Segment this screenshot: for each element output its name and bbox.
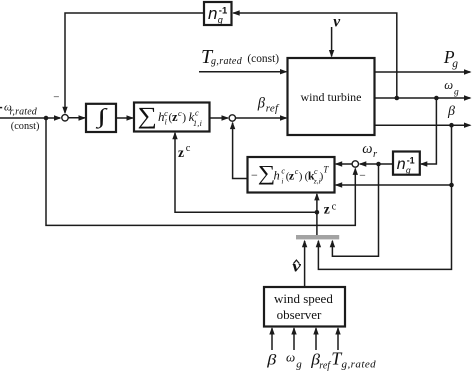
svg-text:1,i: 1,i <box>193 119 202 128</box>
wire: C2 to wind turbine (beta_ref) <box>236 115 288 120</box>
wire: beta feedback into Sigma2 right edge <box>335 182 452 187</box>
label T_g,rated (bottom) <box>331 349 376 371</box>
wire: z^c from bar up to Sigma2 <box>314 193 319 235</box>
svg-text:i: i <box>281 176 283 185</box>
wire: omega_g output <box>375 95 472 100</box>
wire: omega_r,rated input line <box>0 108 62 121</box>
wire: observer input stub beta_ref <box>313 327 318 350</box>
wire: beta feedback down, around, and up into bar <box>316 125 452 269</box>
wire: v_hat from observer up to bar <box>302 240 307 287</box>
wire: n_g^-1 to C3 (omega_r) <box>359 161 393 166</box>
label omega_r <box>362 141 378 160</box>
node: junction beta feedback at Sigma2 input <box>449 183 454 188</box>
label z^c (right) <box>324 201 337 216</box>
wire: T_g,rated input to wind turbine <box>199 69 288 74</box>
svg-text:g,rated: g,rated <box>211 56 243 67</box>
summing junction C1 <box>62 115 68 121</box>
wire: C3 to Sigma2 <box>335 161 352 166</box>
svg-text:c: c <box>314 167 318 176</box>
block n_g^-1 (lower) <box>393 152 420 176</box>
svg-text:g: g <box>454 87 459 97</box>
svg-text:−: − <box>359 170 366 182</box>
svg-text:g: g <box>296 358 302 370</box>
label beta_ref (bottom) <box>310 350 331 371</box>
svg-text:g: g <box>406 165 411 175</box>
svg-text:i: i <box>165 118 167 127</box>
node: beta junction <box>449 123 454 128</box>
svg-text:ω: ω <box>286 350 295 365</box>
svg-text:β: β <box>266 351 277 368</box>
svg-text:c: c <box>186 143 191 154</box>
wire: feedback from n_g^-1 block to C1 <box>62 13 203 114</box>
block Sigma2: -sum h_i^c(z^c)(k_z,i^c)^T <box>248 157 335 193</box>
svg-text:): ) <box>299 171 303 183</box>
svg-text:observer: observer <box>277 307 322 322</box>
block wind speed observer <box>264 287 345 327</box>
wire: observer input stub omega_g <box>291 327 296 350</box>
svg-text:-1: -1 <box>219 5 228 16</box>
label omega_r,rated (const) <box>4 101 39 131</box>
wire: omega_g down to n_g^-1 (lower) <box>420 98 437 167</box>
block n_g^-1 (top) <box>204 2 232 25</box>
svg-text:ref: ref <box>266 103 280 115</box>
wire: Sigma2 output to C2 <box>230 122 248 179</box>
wire: Sigma1 to C2 <box>210 115 230 120</box>
svg-text:ω: ω <box>444 78 453 92</box>
wire: z^c branch left and up to Sigma1 <box>172 132 317 213</box>
gray concentration bar <box>296 235 339 239</box>
label v_hat <box>292 257 301 275</box>
svg-text:v: v <box>333 13 341 30</box>
block wind turbine <box>288 58 375 135</box>
summing junction C2 <box>229 115 235 121</box>
node: z^c junction <box>315 210 320 215</box>
wire: omega_r branch down to bar <box>330 164 379 256</box>
label beta (bottom) <box>266 351 277 368</box>
svg-text:c: c <box>164 108 168 118</box>
block integrator <box>86 104 116 132</box>
wire: observer input stub beta <box>269 327 274 350</box>
svg-text:ω: ω <box>362 141 372 157</box>
node: junction on input line <box>44 116 49 121</box>
svg-text:−: − <box>53 92 59 104</box>
wire: P_g output <box>375 69 472 74</box>
svg-text:): ) <box>182 112 186 124</box>
wire: integrator to Sigma1 <box>116 115 134 120</box>
svg-text:h: h <box>274 168 280 182</box>
node: omega_g junction to n_g^-1 lower <box>434 96 439 101</box>
svg-text:z: z <box>324 202 330 217</box>
node: junction on omega_r line <box>376 162 381 167</box>
svg-text:r,rated: r,rated <box>10 107 38 118</box>
svg-text:n: n <box>208 4 217 23</box>
svg-text:n: n <box>397 156 406 173</box>
summing junction C3 <box>352 161 358 167</box>
svg-text:β: β <box>447 104 455 119</box>
wire: beta output <box>375 123 472 128</box>
svg-text:g: g <box>452 58 458 70</box>
label omega_g (bottom) <box>286 350 302 371</box>
node: omega_g junction to top feedback <box>395 96 400 101</box>
svg-text:r: r <box>373 149 378 160</box>
wire: omega_r,rated branch down to C3 <box>46 118 358 225</box>
wire: v input to wind turbine <box>329 27 334 58</box>
svg-text:(const): (const) <box>11 121 40 132</box>
wire: omega_g feedback up to n_g^-1 (top) <box>232 10 397 98</box>
label T_g,rated (const) <box>201 46 279 68</box>
block Sigma1: sum h_i^c(z^c) k_1,i^c <box>134 102 210 131</box>
svg-text:ref: ref <box>319 361 331 372</box>
svg-text:β: β <box>257 95 266 111</box>
svg-text:-1: -1 <box>407 156 415 166</box>
svg-text:∑: ∑ <box>138 102 158 129</box>
svg-text:g,rated: g,rated <box>342 359 377 371</box>
svg-text:z: z <box>178 145 184 160</box>
wire: observer input stub T_g,rated <box>335 327 340 350</box>
label omega_g <box>444 78 459 97</box>
svg-text:g: g <box>218 15 223 25</box>
svg-text:c: c <box>332 201 337 212</box>
wire: C1 to integrator <box>68 115 86 120</box>
svg-text:c: c <box>195 108 199 118</box>
label z^c (left) <box>178 143 191 160</box>
svg-text:(const): (const) <box>247 53 279 65</box>
label P_g <box>443 47 458 70</box>
label beta_ref <box>257 95 280 114</box>
svg-text:wind speed: wind speed <box>274 291 333 306</box>
svg-text:wind turbine: wind turbine <box>301 90 362 104</box>
